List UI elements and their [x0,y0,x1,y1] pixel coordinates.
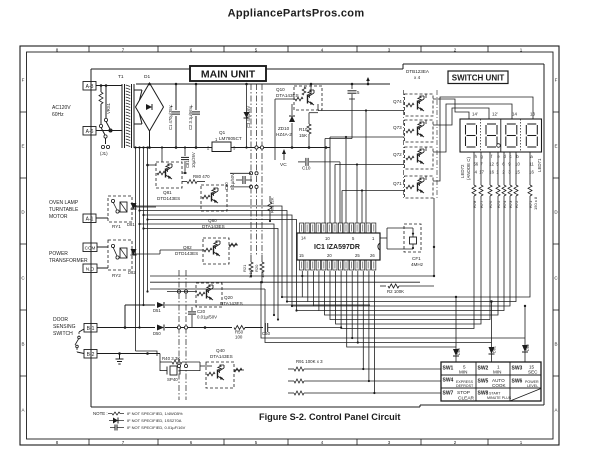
resistor R20 15K [261,255,263,262]
resistor array R71-R78 [473,152,475,185]
wire Q10 collector to Q74 base [317,104,319,111]
switch unit label box [448,71,508,84]
svg-text:R21: R21 [242,264,247,272]
svg-text:DTA143ES: DTA143ES [276,93,299,98]
supply pin arrow [367,78,369,84]
svg-text:12': 12' [492,112,498,117]
svg-text:1: 1 [372,236,375,241]
svg-text:R40 3.3K: R40 3.3K [162,356,180,361]
wire CF1 column down [433,198,435,276]
svg-text:1: 1 [215,137,218,142]
svg-text:5.1K: 5.1K [248,269,253,278]
svg-text:MIN: MIN [493,370,501,375]
svg-text:COM: COM [85,246,96,251]
svg-text:DTD143ES: DTD143ES [175,251,198,256]
svg-text:ZD10: ZD10 [278,126,290,131]
svg-text:SW6: SW6 [512,379,523,385]
transistor Q74 [405,94,434,116]
svg-text:R76: R76 [488,200,493,208]
svg-text:R20: R20 [254,264,259,272]
bus wire D51 row to display [313,304,370,306]
svg-text:C10: C10 [302,166,311,171]
svg-text:Q1: Q1 [219,130,226,135]
svg-text:SW7: SW7 [443,391,454,397]
capacitor C50 [264,323,266,332]
switch matrix table [441,362,541,401]
svg-text:15: 15 [299,253,304,258]
svg-text:Q82: Q82 [183,245,192,250]
svg-text:R80 470: R80 470 [193,174,210,179]
wire IC to Q71 base [341,191,343,224]
svg-text:DEFROST: DEFROST [456,384,474,388]
wires IC bottom to R9x rows [362,271,364,369]
svg-text:C: C [21,276,25,281]
svg-text:b: b [516,154,519,159]
svg-text:4: 4 [475,170,478,175]
svg-text:Q74: Q74 [393,99,402,104]
switch unit enclosure [403,63,544,65]
diode D62 [522,345,528,352]
wire bottom rail [149,131,151,148]
transistor Q80 DTA143ES [201,185,227,211]
svg-text:TURNTABLE: TURNTABLE [49,207,79,213]
svg-text:DTD143ES: DTD143ES [157,196,180,201]
svg-text:R73: R73 [508,200,513,208]
wire C10 to IC [339,162,341,223]
ground [119,354,121,360]
svg-text:AC120V: AC120V [52,105,71,111]
svg-text:3: 3 [388,440,391,445]
svg-text:VRS1: VRS1 [106,102,111,114]
svg-text:E: E [21,144,24,149]
svg-text:10: 10 [325,236,330,241]
resistor R2 100K [380,285,386,287]
VC arrow [283,150,285,160]
svg-text:R10: R10 [299,127,308,132]
varistor VRS1 [100,86,102,93]
wire A-6 [96,130,122,132]
svg-text:SENSING: SENSING [53,324,76,330]
nested wires from Q8x to bus [136,206,283,297]
svg-text:60Hz: 60Hz [52,112,64,118]
IC top pins [300,223,304,233]
svg-text:A-6: A-6 [86,129,94,135]
svg-text:26: 26 [370,253,375,258]
svg-text:8: 8 [56,440,59,445]
svg-text:Q10: Q10 [276,87,285,92]
svg-text:SW4: SW4 [443,378,454,384]
wire IC to Q72 base [334,165,336,224]
svg-text:B: B [21,342,24,347]
svg-text:D81: D81 [127,222,135,227]
svg-text:D82: D82 [128,270,136,275]
wire IC to Q73 base [329,137,331,223]
svg-text:COOK: COOK [492,383,506,388]
svg-text:F: F [22,78,25,83]
svg-text:IF NOT SPECIFIED, 0.01µF/16V: IF NOT SPECIFIED, 0.01µF/16V [127,425,186,430]
transistor Q73 [405,120,434,142]
terminal COM [83,243,97,252]
capacitor C81 [184,148,186,157]
svg-text:LED71: LED71 [537,158,542,172]
svg-text:CLEAR: CLEAR [458,396,475,402]
relay RY2 [108,240,132,270]
svg-text:R74: R74 [502,200,507,208]
capacitor C2 [195,84,197,110]
svg-text:100: 100 [235,335,243,340]
svg-text:IC1 IZA597DR: IC1 IZA597DR [314,244,360,251]
wire connector rows [230,172,251,174]
svg-text:1: 1 [520,440,523,445]
svg-text:SWITCH UNIT: SWITCH UNIT [452,74,505,83]
svg-text:0.01µ/50V: 0.01µ/50V [197,315,217,320]
IC IC1 IZA597DR [297,233,380,260]
transistor Q81 DTD143ES [161,148,163,163]
svg-text:A-1: A-1 [86,217,94,223]
svg-text:+: + [170,104,173,110]
main unit enclosure [90,69,92,407]
svg-text:25: 25 [355,253,360,258]
svg-text:x 4: x 4 [414,75,421,80]
svg-text:LEVEL: LEVEL [527,384,538,388]
svg-text:D62: D62 [526,344,530,351]
wire Q72 to display [433,104,512,152]
svg-text:Q80: Q80 [208,218,217,223]
wire Q74 to display [433,99,469,119]
svg-text:B-1: B-1 [87,326,95,332]
diode D61 [489,347,495,354]
svg-text:R72: R72 [514,200,519,208]
svg-text:h: h [475,154,478,159]
svg-text:DTA143ES: DTA143ES [210,354,233,359]
resistor R61 12K [268,202,272,211]
terminal B-1 [84,324,97,333]
capacitor C10 [298,161,305,163]
svg-text:AppliancePartsPros.com: AppliancePartsPros.com [228,8,365,20]
diode D82 [131,249,137,255]
wire Q71 to display [433,97,533,181]
svg-text:Figure S-2. Control Panel Circ: Figure S-2. Control Panel Circuit [259,412,400,422]
svg-text:R77: R77 [479,200,484,208]
wire relay to bus [132,206,156,208]
svg-text:LM7805CT: LM7805CT [219,136,242,141]
svg-text:POWER: POWER [49,251,68,257]
svg-text:7: 7 [122,440,125,445]
svg-text:4: 4 [321,440,324,445]
digit 3 [507,123,516,125]
svg-text:LED72: LED72 [460,164,465,178]
svg-text:10µ/26V: 10µ/26V [191,152,196,168]
svg-text:14: 14 [301,236,306,241]
svg-text:IF NOT SPECIFIED, 1SS270A: IF NOT SPECIFIED, 1SS270A [127,418,182,423]
svg-text:14: 14 [512,112,517,117]
digit 4 [527,123,536,125]
svg-text:R91 100K x 3: R91 100K x 3 [296,359,323,364]
diode D81 [131,203,137,209]
svg-text:R2 100K: R2 100K [387,289,404,294]
svg-text:C80: C80 [224,182,229,190]
door switch symbol [78,332,80,336]
svg-text:15K: 15K [260,271,265,278]
svg-text:SP40: SP40 [167,377,178,382]
svg-text:IF NOT SPECIFIED, 1/4WΩ5%: IF NOT SPECIFIED, 1/4WΩ5% [127,411,183,416]
diode D60 [453,349,459,356]
svg-text:D: D [21,210,25,215]
svg-text:OVEN LAMP: OVEN LAMP [49,200,79,206]
terminal A-1 [83,214,96,223]
svg-text:B: B [554,342,557,347]
crystal CF1 4MHz [404,224,421,252]
svg-text:Q40: Q40 [216,348,225,353]
svg-text:R78: R78 [472,200,477,208]
bus wires to switch matrix columns [261,282,525,338]
svg-text:SWITCH: SWITCH [53,331,73,337]
main unit label box [190,66,266,81]
resistor R50 100 [234,326,245,330]
svg-text:N.O: N.O [86,267,95,273]
svg-text:(J1): (J1) [100,151,108,156]
svg-text:RY1: RY1 [112,224,121,229]
svg-text:SW1: SW1 [443,366,454,372]
svg-text:6: 6 [190,440,193,445]
svg-text:Q73: Q73 [393,125,402,130]
terminal A-3 [83,82,96,91]
svg-text:Q20: Q20 [224,295,233,300]
svg-text:TRANSFORMER: TRANSFORMER [49,258,88,264]
svg-text:DOOR: DOOR [53,317,68,323]
transistor Q72 [405,147,434,169]
wire V+ top rail [149,83,151,84]
transistor Q71 [405,176,434,198]
svg-text:MAIN UNIT: MAIN UNIT [201,69,256,81]
svg-text:R75: R75 [496,200,501,208]
transistor Q82 DTD143ES [203,238,229,264]
display LED71 LED72 [460,119,542,152]
svg-text:DTB123EA: DTB123EA [406,69,430,74]
svg-text:150 x 8: 150 x 8 [533,196,538,210]
connector column CN3 [250,84,252,255]
svg-text:MINUTE PLUS: MINUTE PLUS [487,396,512,400]
svg-text:17: 17 [479,170,484,175]
terminal N.O [83,264,97,273]
diode D50 [157,325,164,331]
svg-text:E: E [554,144,557,149]
svg-text:B-2: B-2 [87,352,95,358]
wire Q73 to display [433,108,489,125]
svg-text:(ANODE C): (ANODE C) [466,157,471,180]
svg-text:0.1µ/50V: 0.1µ/50V [230,173,235,190]
svg-text:a: a [530,154,533,159]
svg-text:14': 14' [472,112,478,117]
svg-text:A: A [21,408,24,413]
svg-text:Q71: Q71 [393,181,402,186]
svg-text:20: 20 [327,253,332,258]
wire Q20 row to matrix [150,281,420,283]
svg-text:2: 2 [454,440,457,445]
svg-text:T1: T1 [118,74,124,80]
transistor Q20 DTA143ES [196,283,222,307]
svg-text:C81: C81 [185,160,190,168]
svg-text:F: F [555,78,558,83]
svg-text:A-3: A-3 [86,84,94,90]
svg-text:SEC: SEC [528,370,538,375]
svg-text:CF1: CF1 [412,256,421,261]
svg-text:5: 5 [255,440,258,445]
svg-text:+: + [190,104,193,110]
svg-text:NOTE :: NOTE : [93,411,108,416]
svg-text:5: 5 [357,90,360,95]
svg-text:R61 12K: R61 12K [270,197,275,213]
bus wire C50 row [290,327,341,329]
svg-text:SW5: SW5 [478,379,489,385]
capacitor C5 polarized [351,84,353,89]
svg-text:13: 13 [530,112,535,117]
svg-text:C20: C20 [197,309,206,314]
svg-text:D61: D61 [493,346,497,353]
svg-text:4MHz: 4MHz [411,262,424,267]
svg-text:A: A [554,408,557,413]
svg-text:DTA143ES: DTA143ES [220,301,243,306]
diode D51 [124,305,126,328]
svg-text:RY2: RY2 [112,273,121,278]
terminal A-6 [83,127,96,136]
transistor Q40 DTA143ES [206,362,234,388]
terminal B-2 [84,350,97,359]
wire A-3 to transformer [96,85,122,87]
svg-text:HZ4A-2: HZ4A-2 [276,132,292,137]
svg-text:SW2: SW2 [478,366,489,372]
svg-text:SW3: SW3 [512,366,523,372]
resistor R21 5.1K [250,255,252,262]
svg-text:D60: D60 [457,348,461,355]
svg-text:VC: VC [280,162,287,168]
svg-text:Q72: Q72 [393,152,402,157]
svg-text:MOTOR: MOTOR [49,214,68,220]
svg-text:f: f [491,154,493,159]
wire C5 to IC [351,99,353,139]
svg-text:STOP: STOP [457,390,470,396]
svg-text:MIN: MIN [459,370,467,375]
capacitor C1 [175,84,177,110]
svg-text:C: C [554,276,558,281]
svg-text:START: START [489,392,501,396]
svg-text:D: D [554,210,558,215]
capacitor C20 [191,307,193,311]
vertical bus lines [135,148,137,352]
svg-text:D50: D50 [153,331,161,336]
svg-text:C50: C50 [262,331,271,336]
svg-text:5: 5 [352,236,355,241]
connector column CN2 [178,270,180,400]
bus nest IC to display columns [302,196,530,297]
switch J1 [105,86,107,119]
svg-text:15K: 15K [299,133,308,138]
IC bottom pins [300,260,304,270]
wire Q40 row to matrix [150,288,265,290]
svg-text:D1: D1 [144,74,150,80]
svg-text:Q81: Q81 [163,190,172,195]
wire B-1 row [97,327,155,329]
wire B-2 row [97,353,160,355]
digit 1 [467,123,476,125]
svg-text:D51: D51 [153,308,161,313]
digit 2 [487,123,496,125]
wire Q82 row to IC [150,275,434,277]
relay RY1 [108,196,132,222]
wire branches to IC top pins [365,111,367,224]
